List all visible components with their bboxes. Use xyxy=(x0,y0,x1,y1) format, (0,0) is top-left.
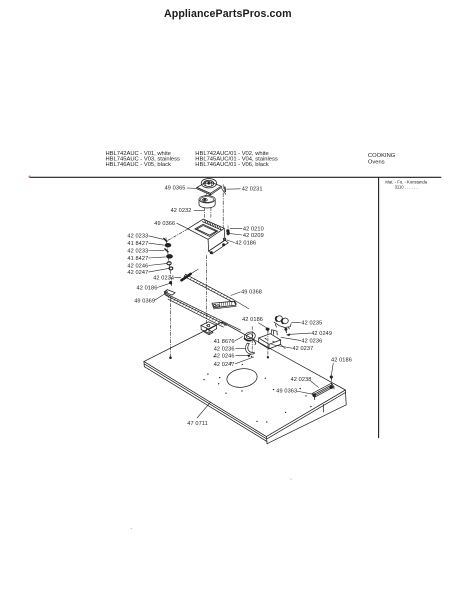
leader 42 0247 (lower) xyxy=(235,357,254,364)
frame right rule xyxy=(378,177,380,438)
screw 42 0186 (right) xyxy=(330,376,332,385)
leader 42 0236 (upper) xyxy=(281,337,301,340)
svg-text:42 0186: 42 0186 xyxy=(235,240,256,246)
dash-dot through slab xyxy=(267,332,269,357)
svg-text:42 0231: 42 0231 xyxy=(242,187,263,193)
svg-text:42 0233: 42 0233 xyxy=(127,234,148,240)
svg-text:49 0363: 49 0363 xyxy=(276,388,297,394)
rail 49 0369 xyxy=(165,293,240,330)
svg-text:42 0186: 42 0186 xyxy=(331,357,352,363)
hardware stack: screw 42 0233 xyxy=(164,239,167,242)
svg-text:42 0210: 42 0210 xyxy=(243,227,264,233)
svg-text:42 0234: 42 0234 xyxy=(153,276,174,282)
screw 42 0249 xyxy=(285,328,287,333)
rail 49 0368 xyxy=(184,274,248,308)
dash-dot central axis (box to bracket) xyxy=(206,255,208,331)
panel 47 0711 top face xyxy=(144,322,346,444)
bracket box 49 0366 xyxy=(188,219,229,254)
screw 42 0186 (center) xyxy=(266,328,269,332)
washer-screw 42 0246 target arrowhead xyxy=(247,354,251,357)
leader 49 0366 xyxy=(177,223,188,229)
svg-text:42 0233: 42 0233 xyxy=(127,248,148,254)
leader 41 8676 xyxy=(235,337,243,342)
washer 42 0247 xyxy=(169,267,173,270)
rail 49 0369 left end tab xyxy=(164,290,175,297)
dash-dot from box corner to hardware stack xyxy=(167,229,187,240)
dash-dot axis left (to panel) xyxy=(170,296,172,357)
dash-dot hardware stack axis xyxy=(166,238,172,284)
leader 42 0186 (stack) xyxy=(157,283,170,287)
leader 42 0246 (lower) xyxy=(235,355,247,357)
svg-text:42 0238: 42 0238 xyxy=(291,377,312,383)
latch strip on rail 49 0368 xyxy=(212,301,236,309)
svg-text:42 0236: 42 0236 xyxy=(214,346,235,352)
leader 49 0368 xyxy=(231,292,241,296)
screw 42 0231 xyxy=(222,187,226,194)
svg-text:42 0235: 42 0235 xyxy=(301,320,322,326)
motor 42 0232 xyxy=(199,196,215,208)
dash-dot axis below motor (right) xyxy=(210,208,212,218)
mounting slab 42 0237 xyxy=(259,334,286,349)
leader 41 8427 (second) xyxy=(148,257,165,258)
leader 42 0209 xyxy=(230,234,242,235)
channel bracket 42 0238 / 49 0363 xyxy=(312,383,334,399)
section title COOKING Ovens xyxy=(368,153,396,165)
nut 41 8427 (second) xyxy=(167,255,173,259)
igniter unit 49 0365 xyxy=(197,179,221,197)
leader 47 0711 xyxy=(197,402,211,418)
screw 42 0233 (second) xyxy=(165,249,168,252)
leader 42 0246 xyxy=(148,263,167,265)
leader 42 0233 (second) xyxy=(148,250,164,252)
screws 42 0210 / 42 0209 / 42 0186 right of box xyxy=(223,226,229,241)
svg-text:42 0186: 42 0186 xyxy=(242,317,263,323)
svg-text:41 8676: 41 8676 xyxy=(214,339,235,345)
leader 42 0236 (lower) xyxy=(235,347,245,349)
svg-text:42 0247: 42 0247 xyxy=(127,270,148,276)
svg-text:Ovens: Ovens xyxy=(368,159,385,165)
dash-dot axis right of unit xyxy=(222,185,224,228)
leader 41 8427 xyxy=(148,243,164,245)
strip 42 0236 (lower) xyxy=(245,343,254,354)
leader 42 0249 with arrowhead xyxy=(288,333,311,334)
faint scan specks xyxy=(290,478,292,480)
svg-text:COOKING: COOKING xyxy=(368,153,396,159)
title block text xyxy=(385,180,427,190)
model list right column xyxy=(195,151,278,168)
frame top rule xyxy=(29,176,441,178)
model list left column xyxy=(106,151,181,168)
leader 42 0231 xyxy=(226,188,240,190)
svg-text:42 0236: 42 0236 xyxy=(301,339,322,345)
leader 42 0247 xyxy=(148,268,169,272)
svg-text:42 0209: 42 0209 xyxy=(243,233,264,239)
scan speck (purple) at left end of rule xyxy=(29,176,31,178)
leader 42 0237 xyxy=(271,345,292,349)
leader 49 0369 xyxy=(155,293,167,301)
bracket 42 0235 xyxy=(274,315,291,329)
svg-text:41 8427: 41 8427 xyxy=(127,241,148,247)
leader 49 0365 xyxy=(187,187,197,189)
leader 42 0186 (right) xyxy=(331,363,333,375)
svg-text:49 0366: 49 0366 xyxy=(154,221,175,227)
leader 42 0238 xyxy=(311,381,319,388)
svg-text:49 0369: 49 0369 xyxy=(134,299,155,305)
svg-text:AppliancePartsPros.com: AppliancePartsPros.com xyxy=(164,8,292,20)
leader 42 0234 xyxy=(174,276,181,278)
dash-dot left of slab xyxy=(251,327,253,353)
svg-text:42 0247: 42 0247 xyxy=(214,362,235,368)
leader 42 0186 (box) xyxy=(226,240,234,243)
svg-text:3110 . . . . . .: 3110 . . . . . . xyxy=(395,184,418,189)
leader 42 0232 xyxy=(194,209,205,211)
svg-text:HBL746AUC/01 - V06, black: HBL746AUC/01 - V06, black xyxy=(195,162,269,168)
svg-text:HBL746AUC - V05, black: HBL746AUC - V05, black xyxy=(106,162,172,168)
clamp 41 8676 xyxy=(243,331,256,345)
leader 42 0210 xyxy=(230,227,242,229)
leader 42 0235 xyxy=(291,322,300,324)
hinge bracket at rail 49 0369 lower end xyxy=(201,322,217,335)
clip 42 0236 (upper) xyxy=(271,330,277,335)
svg-text:42 0249: 42 0249 xyxy=(311,331,332,337)
leader 42 0233 xyxy=(148,236,163,240)
nut 41 8427 xyxy=(165,243,171,247)
leader 42 0186 (center) xyxy=(258,323,267,329)
svg-text:42 0186: 42 0186 xyxy=(137,286,158,292)
svg-text:42 0232: 42 0232 xyxy=(171,208,192,214)
leader 49 0363 xyxy=(296,391,313,394)
pin 42 0234 xyxy=(182,269,199,280)
panel screw holes xyxy=(203,356,311,423)
svg-text:42 0246: 42 0246 xyxy=(127,263,148,269)
burner hole on panel xyxy=(226,367,259,389)
dash-dot axis below motor (left) xyxy=(203,208,205,218)
washer 42 0246 xyxy=(167,262,171,265)
svg-text:41 8427: 41 8427 xyxy=(127,256,148,262)
svg-text:42 0246: 42 0246 xyxy=(214,353,235,359)
svg-text:49 0365: 49 0365 xyxy=(165,185,186,191)
svg-text:49 0368: 49 0368 xyxy=(241,290,262,296)
svg-text:47 0711: 47 0711 xyxy=(187,421,208,427)
svg-text:42 0237: 42 0237 xyxy=(292,346,313,352)
screw 42 0186 below stack xyxy=(169,281,171,285)
